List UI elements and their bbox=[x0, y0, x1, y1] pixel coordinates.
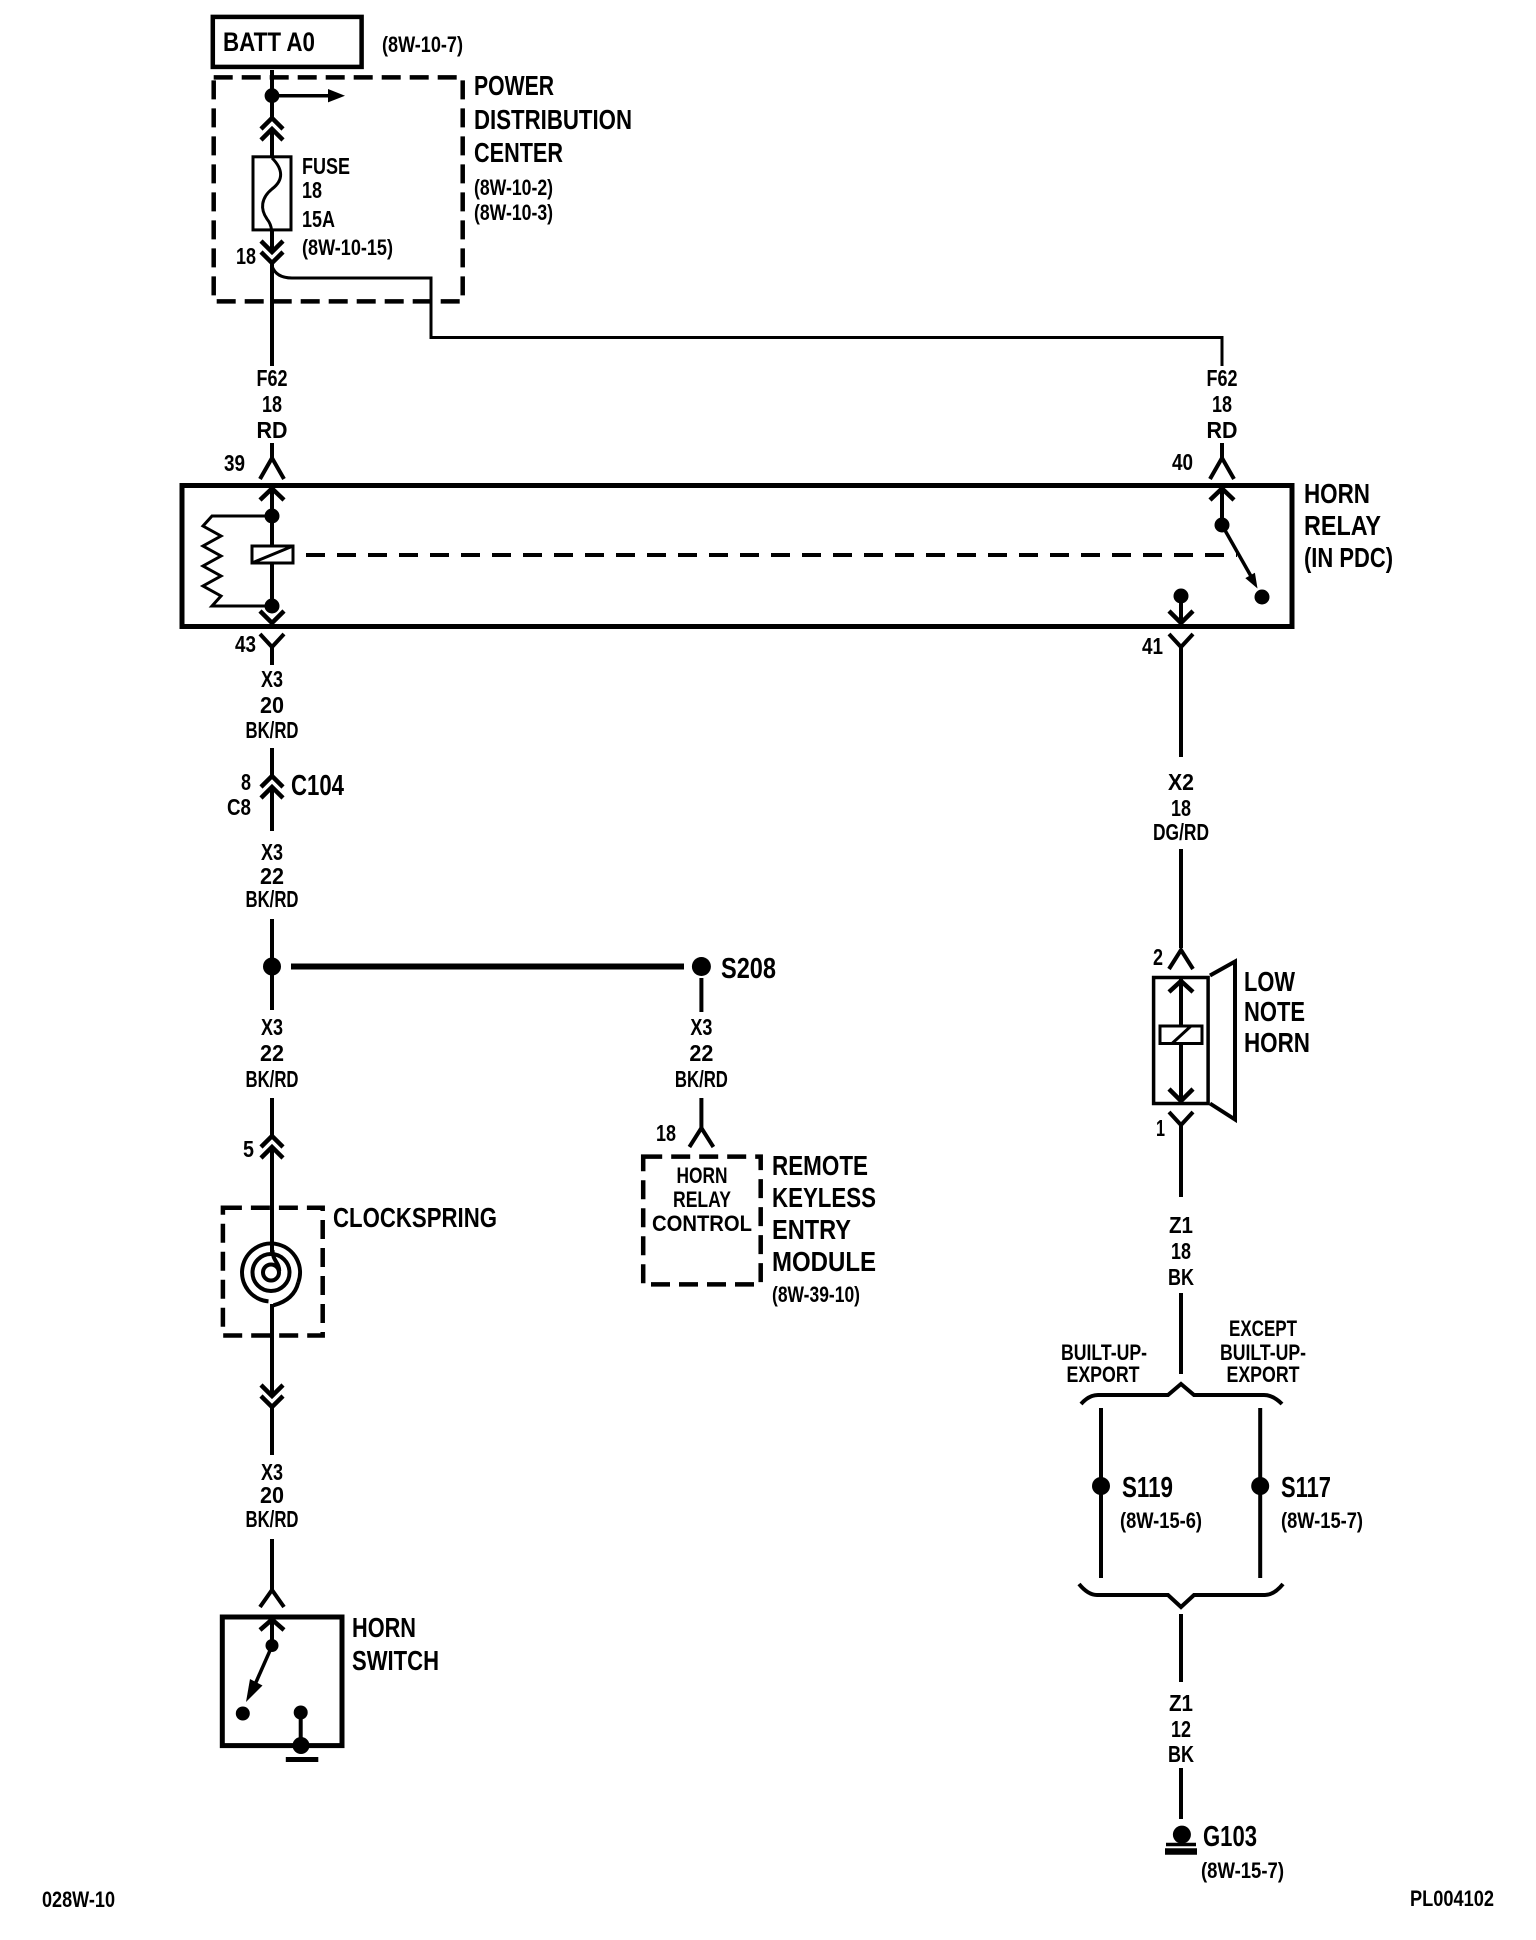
svg-text:FUSE: FUSE bbox=[302, 153, 350, 179]
svg-text:C8: C8 bbox=[227, 794, 251, 820]
svg-text:(8W-39-10): (8W-39-10) bbox=[772, 1282, 860, 1307]
svg-text:CONTROL: CONTROL bbox=[652, 1211, 752, 1236]
svg-text:40: 40 bbox=[1172, 449, 1193, 475]
svg-text:18: 18 bbox=[262, 391, 282, 417]
svg-text:S208: S208 bbox=[721, 953, 776, 985]
svg-text:(8W-10-7): (8W-10-7) bbox=[382, 32, 463, 57]
svg-text:BK: BK bbox=[1168, 1264, 1194, 1290]
svg-text:X2: X2 bbox=[1168, 769, 1194, 795]
svg-text:G103: G103 bbox=[1203, 1821, 1257, 1853]
svg-text:X3: X3 bbox=[261, 839, 283, 865]
svg-text:18: 18 bbox=[302, 177, 322, 203]
svg-text:DISTRIBUTION: DISTRIBUTION bbox=[474, 104, 632, 135]
svg-text:15A: 15A bbox=[302, 206, 335, 232]
svg-text:HORN: HORN bbox=[352, 1612, 416, 1643]
svg-text:(8W-10-2): (8W-10-2) bbox=[474, 175, 553, 200]
svg-text:POWER: POWER bbox=[474, 70, 554, 101]
svg-text:5: 5 bbox=[243, 1136, 254, 1162]
svg-text:18: 18 bbox=[236, 243, 256, 269]
svg-text:20: 20 bbox=[260, 692, 284, 718]
svg-text:(IN PDC): (IN PDC) bbox=[1304, 542, 1393, 573]
svg-text:CENTER: CENTER bbox=[474, 137, 563, 168]
svg-text:20: 20 bbox=[260, 1482, 284, 1508]
svg-text:12: 12 bbox=[1171, 1716, 1191, 1742]
svg-text:(8W-15-7): (8W-15-7) bbox=[1281, 1508, 1363, 1533]
svg-text:HORN: HORN bbox=[677, 1163, 728, 1188]
svg-text:F62: F62 bbox=[1207, 365, 1238, 391]
svg-text:(8W-15-7): (8W-15-7) bbox=[1201, 1858, 1284, 1883]
svg-text:BK: BK bbox=[1168, 1741, 1194, 1767]
svg-text:BK/RD: BK/RD bbox=[246, 1066, 299, 1092]
svg-text:NOTE: NOTE bbox=[1244, 996, 1305, 1027]
svg-text:S119: S119 bbox=[1122, 1472, 1173, 1504]
svg-text:Z1: Z1 bbox=[1169, 1212, 1193, 1238]
svg-text:SWITCH: SWITCH bbox=[352, 1645, 439, 1676]
svg-text:DG/RD: DG/RD bbox=[1153, 819, 1209, 845]
svg-text:(8W-15-6): (8W-15-6) bbox=[1120, 1508, 1202, 1533]
svg-text:HORN: HORN bbox=[1304, 478, 1370, 509]
svg-text:C104: C104 bbox=[291, 770, 344, 802]
svg-text:PL004102: PL004102 bbox=[1410, 1886, 1494, 1911]
svg-text:BK/RD: BK/RD bbox=[246, 717, 299, 743]
svg-text:41: 41 bbox=[1142, 633, 1163, 659]
svg-text:ENTRY: ENTRY bbox=[772, 1214, 851, 1245]
svg-text:22: 22 bbox=[689, 1040, 713, 1066]
svg-text:2: 2 bbox=[1153, 944, 1163, 970]
svg-text:HORN: HORN bbox=[1244, 1027, 1310, 1058]
svg-text:BK/RD: BK/RD bbox=[675, 1066, 728, 1092]
svg-text:18: 18 bbox=[656, 1120, 676, 1146]
svg-text:18: 18 bbox=[1171, 795, 1191, 821]
svg-text:RELAY: RELAY bbox=[673, 1187, 731, 1212]
svg-text:8: 8 bbox=[241, 769, 251, 795]
svg-text:S117: S117 bbox=[1281, 1472, 1331, 1504]
svg-text:RD: RD bbox=[1207, 417, 1238, 443]
svg-text:LOW: LOW bbox=[1244, 966, 1295, 997]
svg-text:X3: X3 bbox=[261, 1014, 283, 1040]
svg-text:(8W-10-3): (8W-10-3) bbox=[474, 200, 553, 225]
svg-text:028W-10: 028W-10 bbox=[42, 1887, 115, 1912]
svg-text:RD: RD bbox=[257, 417, 288, 443]
svg-text:1: 1 bbox=[1156, 1115, 1165, 1141]
svg-text:EXCEPT: EXCEPT bbox=[1229, 1316, 1297, 1341]
svg-text:BK/RD: BK/RD bbox=[246, 1506, 299, 1532]
svg-text:RELAY: RELAY bbox=[1304, 510, 1381, 541]
svg-text:EXPORT: EXPORT bbox=[1227, 1362, 1300, 1387]
svg-text:Z1: Z1 bbox=[1169, 1690, 1193, 1716]
svg-text:X3: X3 bbox=[261, 666, 283, 692]
svg-text:KEYLESS: KEYLESS bbox=[772, 1182, 876, 1213]
svg-text:MODULE: MODULE bbox=[772, 1246, 876, 1277]
svg-text:22: 22 bbox=[260, 1040, 284, 1066]
svg-text:18: 18 bbox=[1212, 391, 1232, 417]
svg-text:18: 18 bbox=[1171, 1238, 1191, 1264]
svg-text:(8W-10-15): (8W-10-15) bbox=[302, 235, 393, 260]
svg-text:BK/RD: BK/RD bbox=[246, 886, 299, 912]
svg-text:X3: X3 bbox=[690, 1014, 712, 1040]
svg-text:F62: F62 bbox=[257, 365, 288, 391]
svg-text:BATT A0: BATT A0 bbox=[223, 27, 315, 57]
svg-text:EXPORT: EXPORT bbox=[1067, 1362, 1140, 1387]
svg-text:CLOCKSPRING: CLOCKSPRING bbox=[333, 1202, 497, 1233]
svg-text:REMOTE: REMOTE bbox=[772, 1150, 868, 1181]
svg-text:43: 43 bbox=[235, 631, 256, 657]
svg-text:39: 39 bbox=[224, 450, 245, 476]
